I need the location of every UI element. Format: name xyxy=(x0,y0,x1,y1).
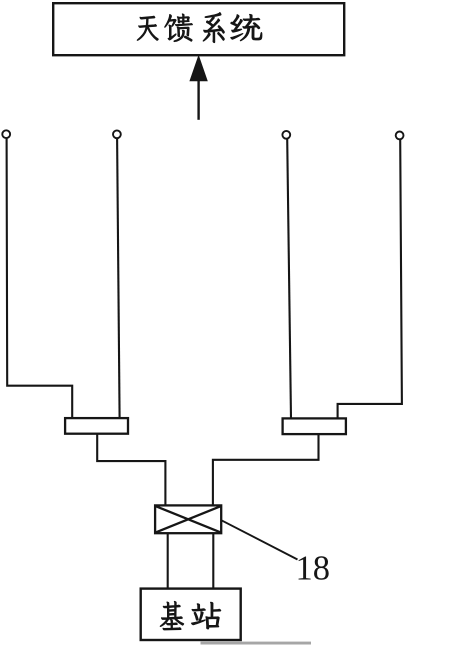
wire from left combiner to crossed box xyxy=(97,434,165,506)
label 基站 (base station) xyxy=(160,601,221,630)
arrow into feeder system (shaft) xyxy=(197,79,199,120)
arrow head xyxy=(190,56,207,81)
antenna terminal A1 (circle) xyxy=(2,130,10,138)
antenna terminal A3 (circle) xyxy=(282,131,290,139)
wire crossed box to base station (right) xyxy=(212,533,214,589)
wire from A2 down to left combiner xyxy=(117,138,120,419)
wire from A4 down, step left to right combiner xyxy=(338,140,402,420)
left combiner (rectangle) xyxy=(65,418,128,434)
wire crossed box to base station (left) xyxy=(167,533,169,589)
scan smudge under base station box xyxy=(201,642,312,645)
crossed box 18 diagonal / xyxy=(156,506,220,532)
leader line to label 18 xyxy=(221,520,297,559)
block U1: antenna feeder system box xyxy=(53,3,344,55)
wire from right combiner to crossed box xyxy=(213,434,319,505)
crossed box 18 (switch/combiner rectangle) xyxy=(155,505,221,533)
wire from A1 down, step right to left combiner xyxy=(7,138,73,419)
antenna terminal A4 (circle) xyxy=(396,132,404,140)
antenna terminal A2 (circle) xyxy=(113,130,121,138)
right combiner (rectangle) xyxy=(283,418,346,434)
svg-text:18: 18 xyxy=(296,550,331,588)
wire from A3 down to right combiner xyxy=(287,139,291,419)
block: base station box xyxy=(141,589,241,640)
crossed box 18 diagonal \ xyxy=(156,506,220,532)
label 天馈系统 (antenna feeder system) xyxy=(137,12,262,42)
